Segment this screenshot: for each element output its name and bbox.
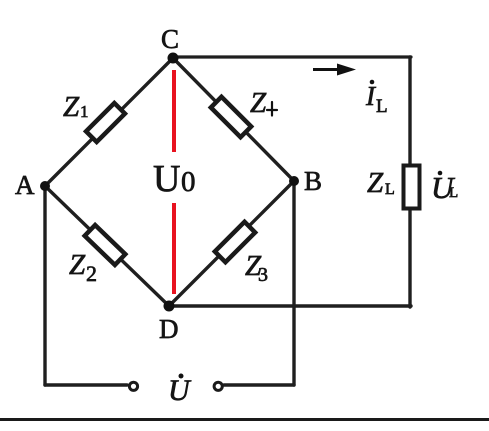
- svg-text:0: 0: [181, 166, 196, 198]
- svg-text:A: A: [15, 170, 35, 200]
- svg-text:B: B: [304, 166, 322, 196]
- svg-text:U: U: [153, 158, 180, 200]
- svg-text:Z: Z: [250, 87, 267, 119]
- svg-text:2: 2: [86, 261, 97, 286]
- svg-text:C: C: [161, 24, 179, 54]
- svg-text:Z: Z: [367, 167, 384, 199]
- svg-text:L: L: [449, 185, 458, 201]
- svg-text:L: L: [376, 96, 388, 117]
- svg-text:1: 1: [80, 102, 89, 121]
- svg-text:L: L: [385, 181, 395, 198]
- svg-text:Z: Z: [69, 249, 86, 281]
- svg-text:Z: Z: [63, 91, 80, 123]
- svg-text:D: D: [159, 314, 179, 344]
- svg-text:3: 3: [258, 264, 268, 286]
- svg-text:U: U: [168, 374, 192, 407]
